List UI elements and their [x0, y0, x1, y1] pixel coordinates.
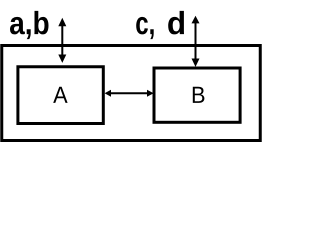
- block A: [18, 67, 103, 124]
- label B: [193, 87, 205, 103]
- label A: [53, 87, 67, 103]
- outer system boundary box: [2, 46, 261, 141]
- wire: vertical double-headed arrow a,b into block A: [58, 18, 66, 63]
- label a,b: [10, 11, 49, 39]
- wire: horizontal double-headed arrow between A and B: [105, 90, 154, 97]
- wire: vertical double-headed arrow c,d into block B: [192, 16, 200, 67]
- label d: [168, 11, 184, 35]
- block B: [154, 68, 240, 122]
- label c,: [136, 17, 154, 39]
